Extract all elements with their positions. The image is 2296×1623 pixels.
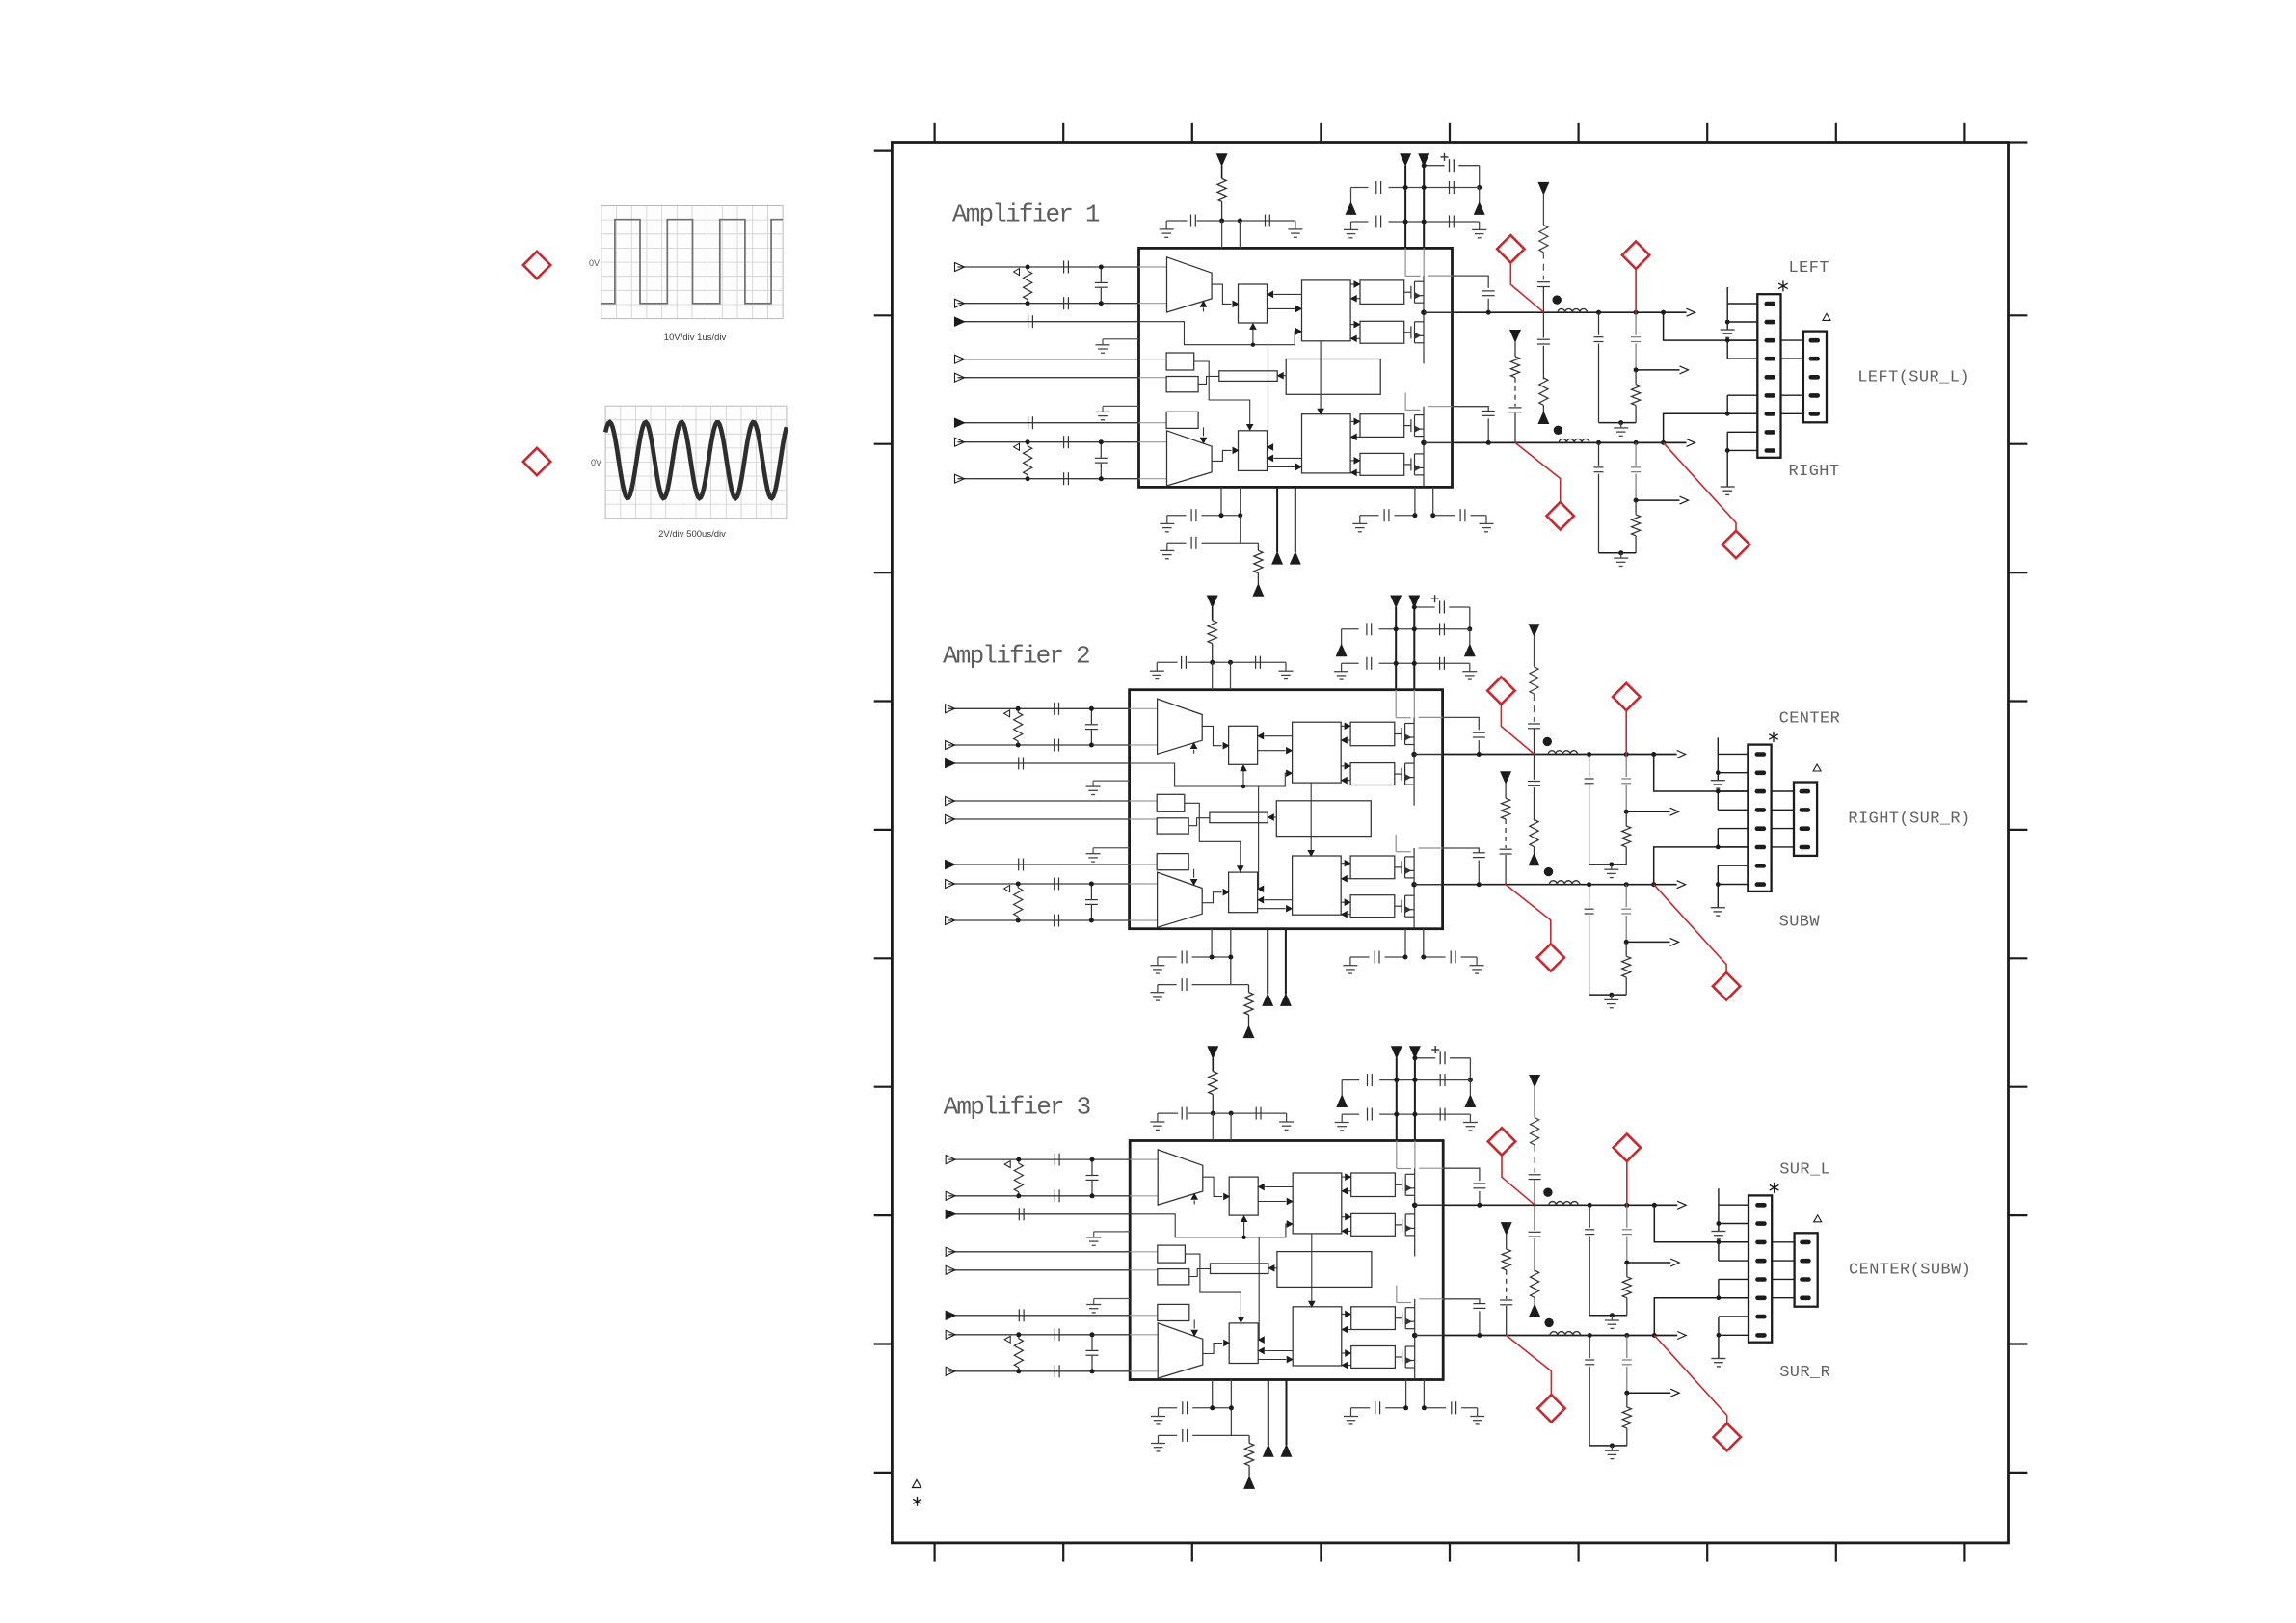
capacitor C_d1 (U3) [1367,1074,1369,1086]
pin1-2 ground bus (CN2a) [1717,737,1719,780]
comparator A2 (U2) [1158,872,1203,927]
wire DRV2-G3 (U3) [1342,1314,1346,1316]
border tick bottom 3 [1191,1543,1193,1562]
top-left cap row wire (U1) [1166,220,1187,222]
pin 2 (CN1a) [1765,320,1776,325]
input terminal IN2+ (U3) [946,1330,955,1339]
border tick left 2 [874,443,893,445]
output line OUT2 (U1) [1453,441,1687,443]
pin 4 (CN1a) [1765,357,1776,361]
IC bottom stub 1 (U3) [1212,1380,1214,1408]
input line MUTE2 (U1) [958,422,1139,424]
wire E out (U3) [1185,1254,1241,1317]
triangle marker (R_ina U1) [1014,269,1020,276]
gate block G4 (U1) [1360,453,1404,475]
wire DRV2-G3 (U1) [1350,420,1354,422]
pin 2 (CN3a) [1755,1221,1767,1226]
capacitor C_inb2 (U1) [1063,472,1065,485]
capacitor C_b1 (U1) [1190,509,1192,521]
ground (bottom row2) (U2) [1157,985,1159,993]
arrow into A2 (U2) [1193,869,1195,878]
ground (top-left row left end) (U3) [1157,1113,1159,1122]
pin3-4 jumper (CN3a) [1718,1242,1720,1261]
capacitor C_inb2 (U3) [1054,1365,1055,1377]
wire DRV1-G1 (U2) [1341,725,1345,727]
ground (bottom right a) (U1) [1359,516,1361,524]
border tick top 2 [1062,123,1064,143]
open arrow OUT2 (U2) [1677,881,1686,889]
capacitor C_ina2 (U2) [1054,739,1055,752]
bootstrap stub 1 (U3) [1419,1167,1443,1169]
gate block G1 (U3) [1351,1173,1396,1197]
pin 1 (CN3a) [1755,1203,1767,1208]
filter cap branch C_f3 (U3) [1588,1333,1592,1338]
output wire OUT1 inside (U2) [1414,754,1443,756]
filter cap branch C_f1 (U2) [1587,752,1591,757]
bottom row1 wire (U2) [1158,956,1177,958]
input line MODE (U3) [948,1269,1130,1271]
filter cap branch C_f4 + R_f2 (U2) [1624,882,1629,887]
supply arrow (PGND2) (U2) [1281,994,1291,1005]
asterisk marker (CN1a) [1782,280,1784,291]
power mosfet Q1 (U3) [1395,1184,1402,1185]
wire G2-DRV1 (U2) [1348,780,1351,782]
capacitor C_b3 (U2) [1374,951,1375,964]
triangle marker (R_inb U3) [1004,1336,1010,1343]
capacitor C_b2 (U1) [1190,537,1192,549]
resistor R_inb (U3) [1018,1335,1020,1339]
pin 5 (CN1b) [1809,412,1821,416]
resistor R_osc (U1) [1257,543,1259,550]
border tick top 7 [1706,123,1708,143]
capacitor C_b2 (U3) [1182,1429,1184,1442]
input terminal IN2+ (U2) [946,880,955,889]
border tick left 10 [874,1472,893,1474]
IC bottom stub 4 (U2) [1423,929,1425,957]
wire A1 to B1 (U3) [1203,1177,1222,1196]
filter ground bar 2 (U1) [1599,552,1637,554]
input line IN2+ (U1) [958,441,1139,443]
tap wire 1 (U3) [1627,1262,1670,1264]
ground (row2 right) (U3) [1469,1114,1471,1122]
ground (top-left row left end) (U2) [1156,662,1158,671]
capacitor C_inb2 (U2) [1054,915,1055,927]
wire B1 to DRV1 (U1) [1268,307,1295,309]
power mosfet Q4 (U2) [1395,905,1402,907]
svg-text:RIGHT(SUR_R): RIGHT(SUR_R) [1848,811,1970,829]
ref block F (U2) [1157,818,1188,834]
schematic border frame [892,143,2008,1543]
IC U2 class-D amplifier body [1130,690,1443,929]
svg-text:10V/div 1us/div: 10V/div 1us/div [664,333,727,343]
input line IN1- (U2) [948,744,1130,746]
input terminal MUTE2 (U1) [955,418,965,427]
capacitor C_d3 (U3) [1367,1108,1369,1121]
mute routing wire (U2) [1130,763,1287,786]
pin 2 (CN2a) [1755,771,1767,776]
output wire OUT2 inside (U2) [1414,884,1443,886]
connector CN2b (U2) [1794,783,1817,856]
control block I (U1) [1286,359,1380,395]
input line MUTE1 (U3) [948,1213,1130,1215]
supply arrow VDD1 (U2) [1391,596,1401,607]
test point diamond TP34 (U3) [1714,1423,1741,1450]
wire OUT1 to connector (U2) [1651,752,1656,757]
input line MODE (U2) [948,818,1130,820]
output wire OUT2 inside (U3) [1415,1335,1444,1337]
svg-text:SUR_R: SUR_R [1779,1364,1830,1382]
wire DRV1-G1 (U1) [1350,283,1354,285]
ground (bottom row2) (U3) [1158,1435,1160,1443]
ref block E (U1) [1166,353,1194,370]
wire CN2a-CN2b pin6 (U2) [1772,846,1794,848]
ref block F (U3) [1158,1269,1189,1285]
capacitor C_ina1 (U3) [1054,1154,1055,1166]
supply arrow (R_osc end) (U1) [1253,584,1263,596]
wire to B1 bottom (U1) [1252,329,1254,344]
wire DRV1 to B1 feedback (U1) [1274,293,1302,295]
wire F to H (U3) [1189,1269,1211,1277]
connector CN2a (U2) [1748,745,1771,891]
inductor L3a (U3) [1549,1202,1578,1206]
wire G1-DRV1 (U3) [1348,1190,1351,1192]
phase dot (L1b) (U1) [1554,426,1562,435]
output wire OUT2 inside (U1) [1424,441,1453,443]
ground (bottom right b) (U1) [1485,516,1487,524]
pin 2 (CN3b) [1800,1259,1811,1264]
top-left cap row wire (U2) [1157,661,1177,663]
input line STBY (U1) [958,359,1139,360]
electrolytic capacitor C_el (U2) [1414,606,1434,608]
output line OUT2 (U2) [1443,884,1677,886]
wire G2-DRV1 (U3) [1348,1230,1351,1232]
supply arrow (row1 left end) (U1) [1350,188,1352,203]
gate block G2 (U2) [1350,763,1395,785]
pin 3 (CN3a) [1755,1240,1767,1245]
capacitor C_mute1 (U2) [1018,758,1020,770]
resistor R_inb (U2) [1017,884,1019,888]
open arrow OUT2 (U3) [1677,1332,1686,1340]
test point diamond (sine wave ref) [523,448,550,475]
ground (CN2a pins 1-2) [1711,780,1725,782]
input terminal IN1+ (U2) [946,705,955,713]
wire DRV2 to B2 feedback (U2) [1265,899,1293,901]
wire DRV1 to DRV2 (U1) [1320,341,1322,410]
capacitor C_d1 (U1) [1375,181,1377,194]
vertical bus wire (U1) [1268,345,1269,447]
supply arrow (PGND2) (U3) [1281,1445,1291,1456]
tap wire 2 (U3) [1627,1392,1670,1394]
triangle marker (R_ina U3) [1004,1161,1010,1168]
svg-text:0V: 0V [589,258,600,268]
pin 6 (CN1a) [1765,393,1776,398]
border tick left 4 [874,700,893,702]
border tick right 1 [2009,314,2028,316]
input line STBY (U3) [948,1251,1130,1253]
test point diamond TP24 (U2) [1713,972,1740,999]
wire CN3a-CN3b pin6 (U3) [1772,1297,1794,1299]
internal supply rail 2 (U1) [1423,248,1425,276]
internal supply rail 1 (U3) [1396,1141,1398,1169]
power mosfet Q4 (U1) [1404,464,1411,466]
filter ground bar 2 (U3) [1589,1445,1627,1447]
border tick bottom 5 [1449,1543,1451,1562]
triangle marker (CN1b) [1823,313,1830,320]
square waveform trace [601,220,783,304]
electrolytic capacitor C_el (U3) [1415,1057,1435,1059]
border tick right 8 [2009,1214,2028,1216]
svg-text:CENTER(SUBW): CENTER(SUBW) [1849,1262,1971,1280]
filter ground bar 1 (U2) [1589,864,1627,865]
wire elco to row1 right (U1) [1479,166,1481,188]
bottom row2 wire (U1) [1167,542,1187,544]
triangle marker (CN2b) [1813,764,1821,771]
input terminal IN1+ (U1) [955,263,965,272]
wire DRV2 to B2 feedback (U1) [1274,457,1302,459]
ground pin GND2 (U3) [1094,1298,1131,1300]
ref block E (U2) [1157,794,1185,811]
capacitor C_ina2 (U1) [1063,297,1065,309]
border tick left 8 [874,1214,893,1216]
scope grid box (square wave) [601,206,783,319]
ground pin GND2 (U1) [1103,405,1139,407]
ground (bottom right a) (U3) [1350,1408,1352,1417]
capacitor C_d2 (U2) [1439,623,1441,635]
bottom right row wire b (U3) [1424,1407,1446,1409]
capacitor C_mute1 (U1) [1028,315,1029,328]
input terminal MUTE2 (U2) [946,861,955,869]
pin5-6 jumper (CN2a) [1717,829,1719,847]
ref block G (U1) [1166,412,1198,428]
decoupling row2 (U3) [1342,1113,1359,1115]
pin 4 (CN3a) [1755,1259,1767,1264]
capacitor C_d2 (U3) [1439,1074,1441,1086]
pin 5 (CN2a) [1755,826,1767,831]
logic block B2 (U2) [1229,872,1258,913]
pin 2 (CN1b) [1809,357,1821,361]
ground (top-left row right end) (U2) [1285,662,1287,671]
osc bar block H (U1) [1219,371,1277,382]
connector CN1a (U1) [1757,294,1780,458]
open arrow OUT1 (U3) [1677,1201,1686,1209]
gate block G3 (U1) [1360,414,1404,438]
legend triangle symbol [913,1480,921,1488]
resistor R_inb (U1) [1027,442,1028,446]
input terminal IN2+ (U1) [955,438,965,446]
border corner overshoot left [874,150,893,152]
pin 4 (CN2a) [1755,808,1767,812]
bottom right row wire b (U1) [1433,515,1455,517]
test point diamond TP11 (U1) [1497,235,1524,262]
capacitor C_b4 (U3) [1451,1401,1453,1414]
input line IN2+ (U3) [948,1334,1130,1336]
pin 8 (CN3a) [1755,1333,1767,1338]
filter cap branch C_f3 (U2) [1587,882,1591,887]
pin 1 (CN1a) [1765,302,1776,306]
wire G1-DRV1 (U1) [1357,298,1361,300]
bootstrap branch 1 (U3) [1443,1168,1480,1181]
legend asterisk symbol [917,1497,919,1506]
arrow into A1 (U1) [1203,307,1205,311]
border tick bottom 6 [1577,1543,1579,1562]
electrolytic capacitor C_el (U1) [1424,165,1444,167]
supply arrow VCC1 top (U2) [1208,596,1217,607]
open arrow OUT2 (U1) [1687,439,1695,446]
sine waveform trace [605,422,787,498]
bootstrap stub 2 (U1) [1428,406,1453,408]
IC bottom stub 4 (U3) [1423,1380,1425,1408]
bootstrap stub 2 (U3) [1419,1298,1443,1300]
test point diamond TP13 (U1) [1547,502,1574,529]
wire DRV1 to B1 feedback (U2) [1265,735,1293,737]
capacitor C_d4 (U1) [1449,216,1451,228]
ground (CN1a pins 1-2) [1721,329,1735,331]
resistor R_sby (U1) [1217,178,1226,201]
input line IN2- (U1) [958,478,1139,480]
pin 1 (CN1b) [1809,338,1821,343]
wire OUT2 to connector (U2) [1651,882,1656,887]
bottom row2 wire (U3) [1159,1434,1178,1436]
input terminal MODE (U3) [946,1265,955,1274]
filter cap branch C_f2 + R_f1 (U1) [1634,310,1639,315]
inductor L2a (U2) [1548,751,1577,755]
IC bottom pin wire PGND1 (U2) [1267,929,1268,995]
svg-text:Amplifier 2: Amplifier 2 [943,642,1089,671]
capacitor C_d4 (U3) [1439,1108,1441,1121]
connector CN3b (U3) [1795,1233,1818,1306]
capacitor C_ina1 (U1) [1063,261,1065,274]
bootstrap branch 2 (U2) [1443,848,1480,853]
capacitor C_inb1 (U1) [1063,436,1065,448]
border tick right 5 [2009,829,2028,831]
pin 3 (CN2a) [1755,789,1767,794]
power mosfet Q1 (U1) [1404,291,1411,293]
ref block E (U3) [1158,1245,1186,1263]
resistor R_sby (U3) [1209,1072,1217,1095]
pin 4 (CN3b) [1800,1296,1811,1301]
wire CN1a-CN1b pin4 (U1) [1781,358,1803,359]
wire DRV1 to B1 feedback (U3) [1265,1186,1293,1188]
power mosfet Q4 (U3) [1395,1356,1402,1358]
power mosfet Q2 (U3) [1395,1224,1402,1226]
ground (bottom right b) (U2) [1476,957,1478,966]
wire B1 to DRV1 (U3) [1258,1201,1286,1203]
capacitor C_d3 (U1) [1375,216,1377,228]
capacitor C_d4 (U2) [1439,657,1441,670]
wire OUT1 to connector (U1) [1661,310,1666,315]
capacitor C_sha (U3) [1091,1159,1093,1175]
test point diamond TP23 (U2) [1537,944,1564,971]
wire CN3a-CN3b pin3 (U3) [1772,1241,1794,1243]
ground (top-left row right end) (U3) [1286,1113,1288,1122]
gate block G3 (U2) [1350,856,1395,879]
wire E out (U1) [1194,361,1250,424]
filter ground bar 1 (U3) [1589,1315,1627,1317]
snubber chain B (U1) [1538,182,1548,194]
filter cap branch C_f3 (U1) [1596,440,1601,445]
wire CN1a-CN1b pin6 (U1) [1781,394,1803,396]
snubber chain B (U2) [1529,625,1538,636]
wire CN2a-CN2b pin5 (U2) [1772,828,1794,830]
svg-text:LEFT: LEFT [1789,259,1829,278]
wire CN2a-CN2b pin3 (U2) [1772,790,1794,792]
triangle marker (R_inb U1) [1014,443,1020,450]
pin 9 (CN1a) [1765,448,1776,453]
wire B1 to DRV1 (U2) [1258,750,1286,752]
inductor L3b (U3) [1550,1332,1581,1336]
input line IN1- (U3) [948,1195,1130,1197]
ground (row2 left) (U2) [1341,663,1343,671]
capacitor C_t1 (U3) [1181,1107,1183,1120]
power mosfet Q3 (U1) [1404,425,1411,427]
capacitor C_b1 (U2) [1181,951,1183,964]
bootstrap branch 1 (U2) [1443,717,1480,730]
capacitor C_sha (U2) [1090,708,1092,724]
border tick bottom 7 [1706,1543,1708,1562]
input terminal IN1- (U1) [955,299,965,307]
bottom right row wire a (U2) [1350,956,1370,958]
logic block B2 (U3) [1229,1323,1258,1364]
capacitor C_shb (U1) [1100,442,1102,458]
wire DRV1-G2 (U1) [1350,324,1354,326]
IC bottom pin wire PGND1 (U1) [1276,487,1278,552]
supply arrow (R_osc end) (U3) [1244,1477,1254,1488]
ref block G (U2) [1157,854,1188,870]
filter cap branch C_f2 + R_f1 (U3) [1624,1203,1629,1208]
driver block DRV1 (U1) [1302,280,1351,341]
ground (row2 right) (U1) [1479,222,1481,229]
resistor R_ina (U1) [1027,267,1028,271]
input terminal MODE (U2) [946,815,955,824]
power mosfet Q1 (U2) [1395,733,1402,735]
bootstrap stub 2 (U2) [1419,847,1443,849]
top-left cap row wire (U3) [1158,1112,1178,1114]
asterisk marker (CN3a) [1774,1183,1775,1193]
IC bottom stub 3 (U3) [1405,1380,1407,1408]
comparator A1 (U2) [1158,699,1203,754]
IC bottom stub 2 (U2) [1230,929,1232,985]
capacitor C_mute2 (U2) [1018,859,1020,871]
snubber chain B (U3) [1530,1076,1539,1087]
wire I to H (U1) [1283,375,1287,377]
bottom ground wire (CN3a) [1718,1317,1720,1359]
driver block DRV2 (U3) [1293,1307,1342,1366]
capacitor C_mute2 (U3) [1018,1309,1020,1321]
mosfet drain/source joins (U3) [1414,1168,1416,1205]
arrow into A2 (U3) [1193,1320,1195,1329]
internal supply rail 2 (U3) [1414,1141,1416,1169]
border tick top 3 [1191,123,1193,143]
capacitor C_b4 (U1) [1459,509,1461,521]
border tick left 1 [874,314,893,316]
wire G1-DRV1 (U2) [1348,739,1351,741]
wire OUT2 to connector (U1) [1661,440,1666,445]
border tick right 3 [2009,572,2028,573]
ref block F (U1) [1166,377,1198,392]
wire G4-DRV2 (U1) [1357,471,1361,473]
input terminal IN1+ (U3) [946,1156,955,1164]
capacitor C_inb1 (U3) [1054,1328,1055,1341]
ground (bottom right a) (U2) [1349,957,1351,966]
tap wire 1 (U2) [1626,811,1669,812]
test point diamond TP12 (U1) [1622,242,1649,269]
input terminal STBY (U3) [946,1247,955,1256]
capacitor C_shb (U2) [1090,884,1092,899]
wire DRV2-G4 (U1) [1350,460,1354,462]
ground (bottom row1) (U2) [1157,957,1159,966]
capacitor C_t1 (U1) [1190,215,1192,227]
capacitor C_mute2 (U1) [1028,416,1029,429]
